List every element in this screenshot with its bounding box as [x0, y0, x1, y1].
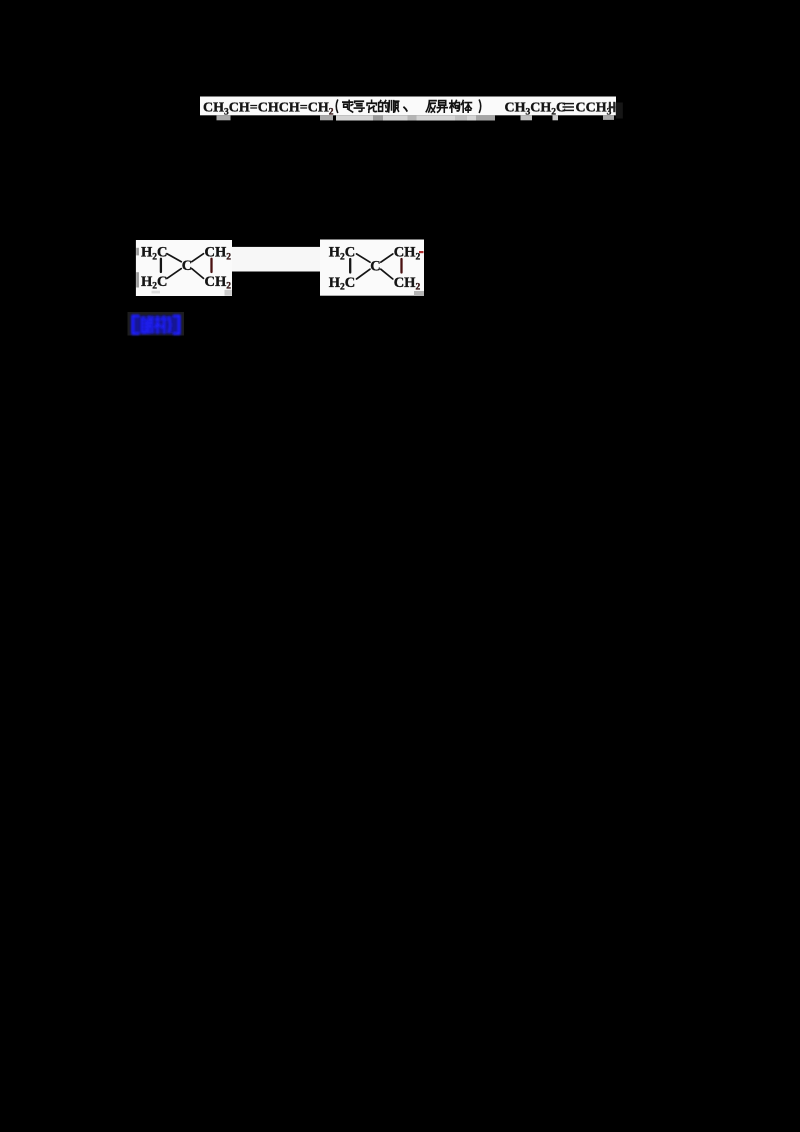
CJK run 1: （或写它的顺、	[336, 100, 407, 112]
right structure box	[320, 240, 424, 296]
red tick right edge	[419, 251, 424, 253]
left structure box	[136, 240, 232, 296]
svg-text:CH3CH2C: CH3CH2C	[505, 101, 567, 118]
bonds left box	[161, 254, 212, 279]
svg-text:CH3CH=CHCH=CH2: CH3CH=CHCH=CH2	[203, 101, 334, 118]
gray artifact band under strip	[217, 115, 615, 120]
svg-text:C: C	[370, 258, 380, 274]
svg-text:CCH3: CCH3	[576, 101, 612, 118]
gray ticks on left edge of left box	[136, 248, 139, 256]
top formula white strip	[200, 97, 616, 116]
connector strip	[232, 247, 321, 272]
svg-text:C: C	[182, 258, 192, 274]
CJK run 2: 反异构体）	[426, 100, 481, 112]
blue [jiexi] box	[128, 312, 185, 336]
clipped dark glyph at strip right edge	[609, 102, 616, 112]
